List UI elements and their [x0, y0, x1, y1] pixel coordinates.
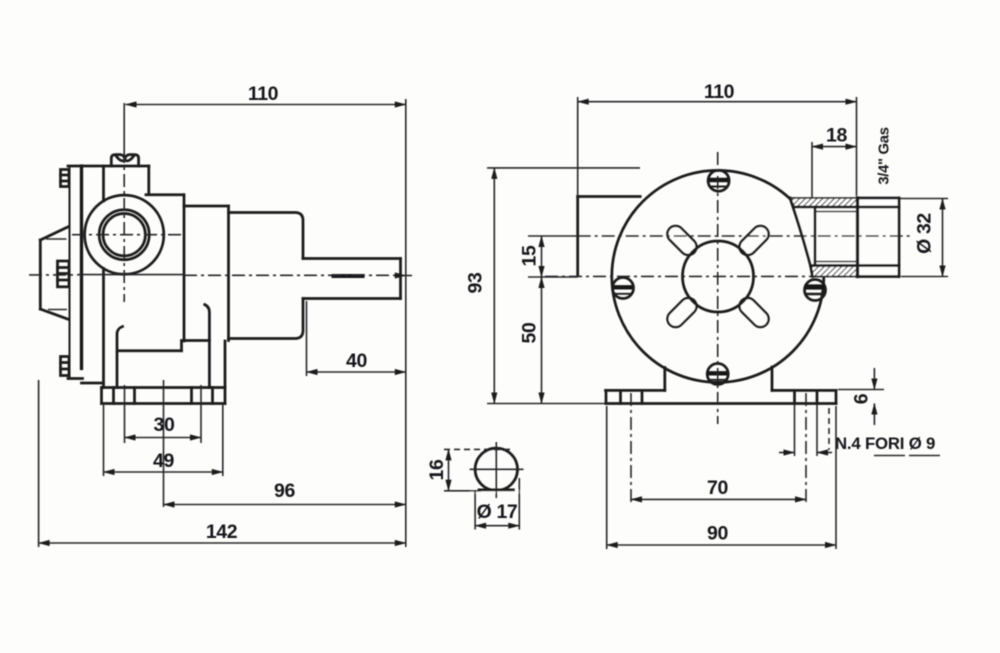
svg-text:110: 110: [704, 81, 735, 103]
svg-text:93: 93: [465, 272, 487, 293]
port bore bottom line: [811, 264, 900, 267]
svg-text:N.4 FORI Ø 9: N.4 FORI Ø 9: [835, 434, 935, 453]
axis end arrow: [394, 275, 406, 277]
flange plate right edge: [80, 166, 83, 369]
dimension 90: [607, 544, 836, 546]
chamber bottom line: [118, 349, 182, 352]
dimension 6 foot thickness: [838, 389, 884, 391]
rear plate edge: [224, 341, 227, 404]
shaft top edge: [303, 257, 401, 260]
foot slot edge: [211, 388, 214, 404]
front support rib edge: [117, 327, 123, 388]
horizontal centerline: [545, 275, 858, 277]
dimension 15: [541, 236, 543, 277]
threaded port body fill: [790, 198, 899, 277]
stud top: [61, 170, 70, 187]
mounting bracket bottom slant: [40, 309, 69, 320]
impeller vane upper-left: [676, 234, 689, 247]
svg-text:Ø 17: Ø 17: [477, 501, 518, 523]
shaft bottom edge: [303, 297, 401, 300]
vertical centerline: [717, 152, 719, 424]
bracket inner line top: [46, 238, 67, 240]
impeller vane upper-right: [748, 234, 761, 247]
bearing flange top edge: [184, 205, 229, 208]
impeller vane lower-right: [748, 306, 761, 319]
impeller vane lower-left: [676, 306, 689, 319]
stud bottom: [61, 357, 70, 376]
pump cover circle: [612, 170, 824, 382]
shaft keyway line: [332, 274, 365, 278]
body front face upper edge: [102, 166, 105, 201]
body top edge: [68, 165, 149, 168]
port bottom hatched wall: [811, 266, 858, 277]
foot hole edge: [619, 390, 622, 403]
foot centerline: [163, 380, 165, 507]
dimension 96: [164, 504, 406, 506]
port top edge: [858, 197, 900, 200]
svg-text:15: 15: [519, 245, 541, 266]
foot left edge: [100, 388, 103, 404]
port bottom edge: [858, 275, 900, 278]
dimension 18 port: [812, 146, 857, 148]
top cap plug: [111, 155, 138, 166]
port top hatched wall: [790, 198, 858, 207]
top cap notch: [116, 155, 135, 161]
body bottom step edge: [82, 382, 104, 385]
chamber step edge: [180, 341, 183, 351]
rear cylinder bottom edge: [229, 299, 304, 339]
foot shoulder left: [606, 389, 665, 392]
port axis centerline: [528, 235, 578, 237]
dimension 110 top left view: [126, 104, 406, 106]
pump body top edge: [146, 193, 184, 196]
bracket inner line bottom: [48, 309, 67, 311]
svg-text:Ø 32: Ø 32: [914, 213, 936, 254]
svg-text:6: 6: [851, 393, 873, 404]
bearing flange right edge: [227, 206, 230, 341]
mounting bracket left edge: [39, 240, 42, 309]
port end face: [898, 198, 901, 277]
dimension 93 height: [493, 168, 495, 404]
body front face lower edge: [102, 269, 105, 388]
foot slot centerline right: [200, 385, 202, 443]
hole edge extension lines: [794, 405, 796, 456]
foot shoulder right: [772, 389, 836, 392]
axis extension solid: [528, 276, 578, 278]
dimension 40 shaft: [307, 371, 406, 373]
dimension diameter 17: [475, 525, 519, 527]
svg-text:142: 142: [206, 521, 238, 543]
screw top: [708, 170, 729, 191]
svg-text:49: 49: [153, 450, 174, 472]
foot slot edge: [190, 388, 193, 404]
dimension diameter 32: [942, 199, 944, 277]
foot hole edge: [816, 390, 819, 403]
detail vertical centerline: [495, 442, 497, 498]
main axis centerline: [78, 274, 184, 276]
screw bottom: [707, 364, 728, 385]
detail horizontal centerline: [470, 468, 524, 470]
body-to-foot rib right: [771, 367, 774, 390]
rear cylinder top edge: [229, 213, 304, 259]
port thread minor bottom: [815, 261, 858, 263]
rear support rib edge: [205, 305, 210, 388]
shoulder edge extension dashed: [828, 408, 830, 450]
svg-text:30: 30: [154, 414, 175, 436]
svg-text:90: 90: [707, 523, 728, 545]
rear plate top edge: [578, 195, 641, 198]
port bore circle inner: [103, 214, 145, 256]
rear plate left edge: [576, 197, 579, 276]
dimension 70: [631, 498, 806, 500]
svg-text:16: 16: [426, 459, 448, 480]
svg-text:110: 110: [248, 83, 279, 105]
foot plate right end: [835, 390, 838, 403]
port bore top line: [795, 206, 900, 209]
port bore left edge: [814, 209, 817, 263]
foot slot edge: [133, 388, 136, 404]
shaft end face: [399, 259, 402, 299]
foot top edge: [102, 386, 226, 389]
dimension 30 foot slots: [125, 437, 202, 439]
port left tapered edge: [790, 198, 813, 277]
foot plate bottom: [606, 402, 836, 405]
foot bottom edge: [102, 402, 226, 405]
shaft section circle with flat: [475, 448, 517, 490]
dimension 50: [541, 277, 543, 404]
svg-text:40: 40: [346, 350, 367, 372]
foot slot centerline left: [124, 385, 126, 443]
port bore circle outer: [99, 210, 149, 260]
foot slot edge: [112, 388, 115, 404]
svg-text:70: 70: [707, 477, 728, 499]
dimension 110 top front view: [578, 101, 857, 103]
port thread minor top: [815, 211, 858, 213]
svg-text:96: 96: [274, 480, 295, 502]
dimension 16: [448, 449, 450, 490]
extension line right column: [405, 99, 407, 547]
hole diameter callout arrows: [779, 452, 795, 454]
body-to-foot rib left: [663, 368, 666, 391]
dimension 49 foot: [104, 471, 223, 473]
port horizontal centerline: [72, 234, 182, 236]
port hex divider: [856, 198, 859, 277]
foot hole edge: [793, 390, 796, 403]
stud middle: [58, 261, 70, 287]
svg-text:50: 50: [519, 322, 541, 343]
screw right: [805, 280, 826, 301]
flange plate left edge: [69, 166, 71, 379]
flange bottom edge: [68, 377, 83, 380]
port vertical centerline: [123, 103, 125, 150]
svg-text:3/4" Gas: 3/4" Gas: [877, 127, 893, 184]
foot plate left end: [605, 390, 608, 403]
front block right edge: [183, 195, 186, 341]
port boss outer circle: [85, 195, 164, 274]
mounting bracket top slant: [40, 227, 69, 241]
foot hole edge: [641, 390, 644, 403]
cap block right edge: [147, 166, 150, 195]
svg-text:18: 18: [826, 125, 847, 147]
dimension 142: [39, 542, 406, 544]
screw left: [613, 278, 634, 299]
hole centerline extensions: [630, 393, 632, 503]
bearing flange bottom edge: [184, 339, 209, 342]
impeller hub circle: [683, 241, 754, 312]
